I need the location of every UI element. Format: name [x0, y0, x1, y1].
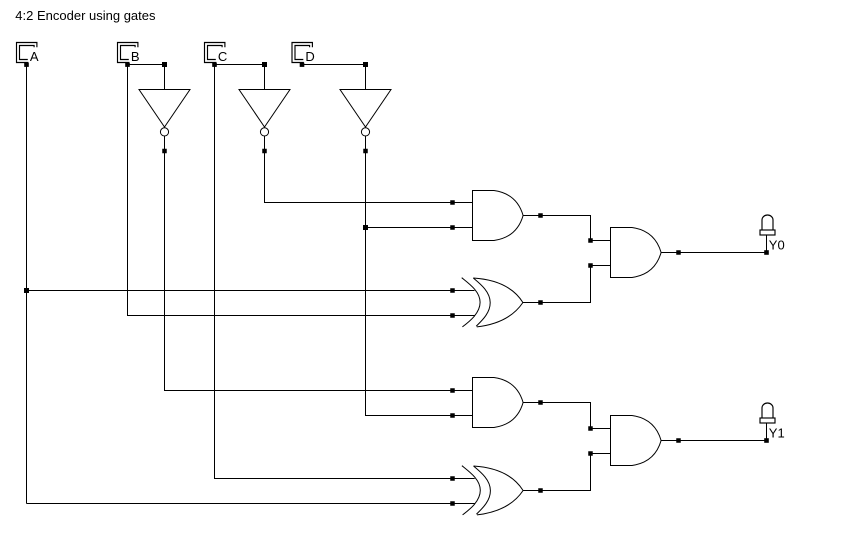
- inverter NOT-B: [139, 65, 190, 153]
- pin G1 input 2: [450, 225, 455, 230]
- LED Y1: [760, 403, 785, 443]
- wire G6 output to LED Y1: [679, 440, 767, 442]
- wire switch B to inverter NOT-B input: [128, 64, 165, 66]
- wire G2 output to G5 input 2: [541, 266, 591, 303]
- svg-text:D: D: [305, 49, 314, 64]
- pin G5 input 1: [588, 238, 593, 243]
- wire B vertical to XOR G2 input 2: [128, 65, 453, 316]
- pin inverter NOT-B output: [162, 149, 167, 154]
- wire NOT-D branch to AND G1 input 2: [366, 227, 453, 229]
- pin G1 input 1: [450, 200, 455, 205]
- pin inverter NOT-D output: [363, 149, 368, 154]
- pin G3 input 2: [450, 413, 455, 418]
- svg-text:C: C: [218, 49, 227, 64]
- inverter NOT-D: [340, 65, 391, 153]
- pin G2 input 2: [450, 313, 455, 318]
- pin G5 output: [676, 250, 681, 255]
- pin G5 input 2: [588, 263, 593, 268]
- svg-text:Y0: Y0: [769, 237, 785, 252]
- wire G3 output to G6 input 1: [541, 403, 591, 429]
- inverter NOT-C: [239, 65, 290, 153]
- node A junction: [24, 288, 29, 293]
- pin inverter NOT-C input: [262, 62, 267, 67]
- node NOT-D junction: [363, 225, 368, 230]
- pin G6 output: [676, 438, 681, 443]
- wire G5 output to LED Y0: [679, 252, 767, 254]
- pin G2 input 1: [450, 288, 455, 293]
- wire NOT-C output to AND G1 input 1: [265, 151, 453, 203]
- wire A to XOR G4 input 2: [27, 503, 453, 505]
- input switch A: [17, 43, 39, 67]
- pin G1 output: [538, 213, 543, 218]
- pin G3 input 1: [450, 388, 455, 393]
- input switch C: [205, 43, 228, 67]
- svg-text:4:2 Encoder using gates: 4:2 Encoder using gates: [15, 8, 156, 23]
- input switch D: [292, 43, 315, 67]
- LED Y0: [760, 215, 785, 255]
- AND gate G1: [453, 191, 541, 241]
- svg-text:A: A: [30, 49, 39, 64]
- wire G4 output to G6 input 2: [541, 454, 591, 491]
- pin G4 input 2: [450, 501, 455, 506]
- AND gate G6: [591, 416, 679, 466]
- wire NOT-B output to AND G3 input 1: [165, 151, 453, 391]
- XOR gate G4: [453, 466, 541, 515]
- svg-text:B: B: [131, 49, 140, 64]
- pin G6 input 1: [588, 426, 593, 431]
- pin G6 input 2: [588, 451, 593, 456]
- wire switch D to inverter NOT-D input: [302, 64, 366, 66]
- wire switch C to inverter NOT-C input: [215, 64, 265, 66]
- pin G3 output: [538, 400, 543, 405]
- title text: [15, 8, 156, 23]
- pin G2 output: [538, 300, 543, 305]
- pin inverter NOT-C output: [262, 149, 267, 154]
- wire NOT-D output vertical to AND G3 input 2: [366, 151, 453, 416]
- pin G4 output: [538, 488, 543, 493]
- wire A vertical: [26, 65, 28, 504]
- XOR gate G2: [453, 278, 541, 327]
- pin G4 input 1: [450, 476, 455, 481]
- wire G1 output to G5 input 1: [541, 216, 591, 241]
- input switch B: [118, 43, 140, 67]
- AND gate G5: [591, 228, 679, 278]
- pin inverter NOT-B input: [162, 62, 167, 67]
- svg-text:Y1: Y1: [769, 425, 785, 440]
- wire C vertical to XOR G4 input 1: [215, 65, 453, 479]
- wire A to XOR G2 input 1: [27, 290, 453, 292]
- pin inverter NOT-D input: [363, 62, 368, 67]
- AND gate G3: [453, 378, 541, 428]
